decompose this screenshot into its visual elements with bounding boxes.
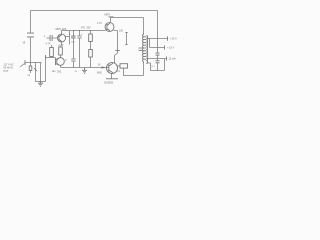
svg-text:PUT: PUT [4, 70, 9, 73]
transformer T1 primary [143, 18, 144, 76]
capacitor C2 [44, 35, 58, 41]
wire tap 1 [147, 36, 178, 40]
wire secondary return loop [147, 59, 165, 71]
svg-text:4.7K: 4.7K [46, 43, 51, 46]
resistor R6 [117, 64, 128, 73]
wire emitter bus [61, 67, 109, 69]
switch S1 [28, 63, 37, 82]
wire secondary riser [149, 39, 151, 48]
svg-text:MJE: MJE [97, 72, 102, 75]
contact bar [45, 55, 47, 60]
resistor R1 [46, 43, 54, 58]
wire R6 to primary bottom [124, 68, 144, 75]
svg-text:10u: 10u [52, 70, 57, 73]
wire mid rail [62, 30, 106, 32]
wire down3 [45, 61, 47, 82]
capacitor C5 [156, 53, 160, 55]
capacitor C1 [23, 33, 35, 44]
wire bottom left [36, 81, 46, 83]
svg-text:MPS: MPS [105, 13, 111, 16]
svg-text:+ 15 V: + 15 V [167, 47, 175, 50]
svg-text:1K: 1K [98, 63, 101, 66]
wire Q3 emitter right [114, 31, 118, 64]
resistor R2 [89, 31, 93, 68]
transformer T1 core rungs [144, 37, 146, 59]
svg-text:100: 100 [119, 29, 124, 32]
node junctions on mid rail [73, 30, 91, 31]
wire left rail upper [30, 11, 32, 33]
fuse F1 [29, 63, 32, 74]
node tick mid vertical [115, 50, 119, 52]
node arrow into Q4 base [102, 67, 105, 68]
transistor Q2 [56, 58, 65, 68]
node AC input label [4, 64, 25, 73]
svg-text:2N2: 2N2 [57, 71, 62, 74]
svg-text:2N3055: 2N3055 [104, 81, 114, 85]
label Q3 [105, 13, 114, 17]
capacitor C6 [156, 61, 160, 63]
wire top rail [31, 10, 158, 12]
svg-text:35V: 35V [87, 28, 92, 30]
ground GND3 [104, 74, 118, 85]
svg-text:4.7K: 4.7K [97, 22, 102, 25]
transistor Q1 [58, 34, 66, 42]
ground GND2 [82, 68, 87, 74]
wire B+ drop right [157, 11, 159, 39]
connector J1 [24, 60, 26, 65]
wire AC line [26, 62, 42, 64]
resistor R4 stub [66, 31, 76, 45]
capacitor C3 [69, 31, 76, 68]
svg-text:470: 470 [81, 26, 86, 29]
wire Q4 right lead [118, 65, 121, 67]
wire secondary bus 4 [157, 63, 159, 70]
wire left rail lower [30, 37, 32, 62]
wire secondary bus [157, 39, 159, 53]
transistor Q3 [105, 23, 114, 32]
wire Q3 collector up [111, 18, 144, 23]
wire Q1 collector up [61, 31, 63, 35]
wire Q2 base lead [46, 57, 56, 59]
resistor R3 [59, 42, 63, 58]
wire secondary bus 3 [157, 59, 159, 61]
transformer T1 secondary [146, 36, 147, 64]
wire secondary bus 2 [157, 55, 159, 58]
wire down2 [40, 63, 42, 82]
capacitor C4 [77, 31, 83, 68]
wire tap 2 [150, 46, 175, 50]
svg-text:+ 30 V: + 30 V [170, 38, 178, 41]
wire tap 3 [148, 57, 177, 61]
resistor R5 stub [125, 33, 127, 45]
transistor Q4 [107, 63, 118, 74]
transformer T1 tap ticks [139, 48, 143, 50]
svg-text:15 mA: 15 mA [169, 58, 177, 61]
ground GND1 [38, 82, 43, 87]
